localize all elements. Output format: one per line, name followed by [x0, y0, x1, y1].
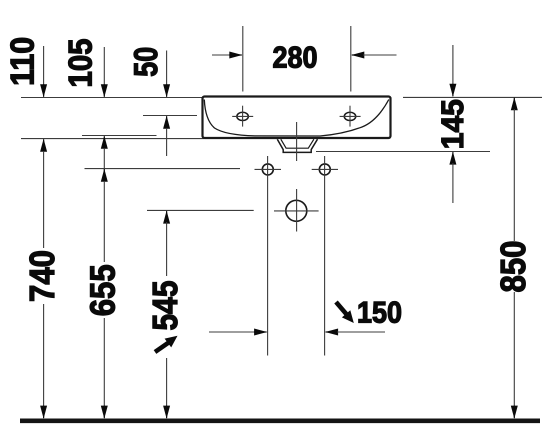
- svg-text:150: 150: [357, 297, 402, 330]
- basin inner bowl curve: [204, 100, 388, 137]
- drain spigot inner: [281, 139, 314, 148]
- svg-text:50: 50: [127, 47, 164, 77]
- 105 level line: [82, 135, 157, 137]
- siphon outlet circle: [274, 189, 319, 232]
- tap hole right: [340, 106, 361, 127]
- dim line 740: [40, 139, 47, 419]
- svg-text:850: 850: [494, 241, 533, 293]
- dim line 50: [163, 51, 170, 157]
- dim line 655: [101, 136, 108, 419]
- adjust arrow at 150: [336, 302, 354, 323]
- drain bottom level line (145): [316, 151, 490, 153]
- svg-text:740: 740: [23, 250, 62, 302]
- tap hole level line (50): [143, 115, 197, 117]
- center line upper: [296, 122, 298, 161]
- basin underside level line: [21, 138, 204, 140]
- dim line 545: [163, 211, 170, 419]
- tap hole left: [232, 106, 253, 127]
- rim level extension line left: [21, 97, 202, 99]
- fixing hole extension line right: [324, 156, 326, 356]
- svg-text:280: 280: [273, 41, 318, 74]
- dim 150 arrow left: [209, 329, 267, 336]
- svg-text:145: 145: [435, 99, 470, 149]
- fixing hole extension line left: [267, 156, 269, 356]
- dim 280 arrow right: [351, 52, 396, 59]
- svg-text:110: 110: [3, 37, 40, 86]
- fixing hole level line (655): [85, 168, 241, 170]
- dim 150 arrow right: [325, 329, 385, 336]
- basin outline: [203, 97, 391, 139]
- siphon level line (545): [147, 209, 254, 211]
- fixing hole left: [255, 164, 282, 175]
- dim 280 arrow left: [212, 52, 242, 59]
- dim line 145: [449, 45, 456, 203]
- svg-text:545: 545: [146, 281, 185, 331]
- dim line 105: [101, 47, 108, 97]
- svg-text:655: 655: [83, 264, 122, 316]
- dim line 850: [511, 97, 518, 418]
- dim line 110: [40, 46, 47, 97]
- dim 280 extension line right: [350, 26, 352, 92]
- rim level extension line right: [403, 96, 542, 98]
- dim 280 extension line left: [242, 26, 244, 92]
- fixing hole right: [312, 164, 338, 175]
- floor line: [20, 418, 540, 423]
- adjust arrow at 545: [155, 336, 178, 352]
- svg-text:105: 105: [61, 39, 98, 88]
- drain spigot outer: [277, 139, 317, 152]
